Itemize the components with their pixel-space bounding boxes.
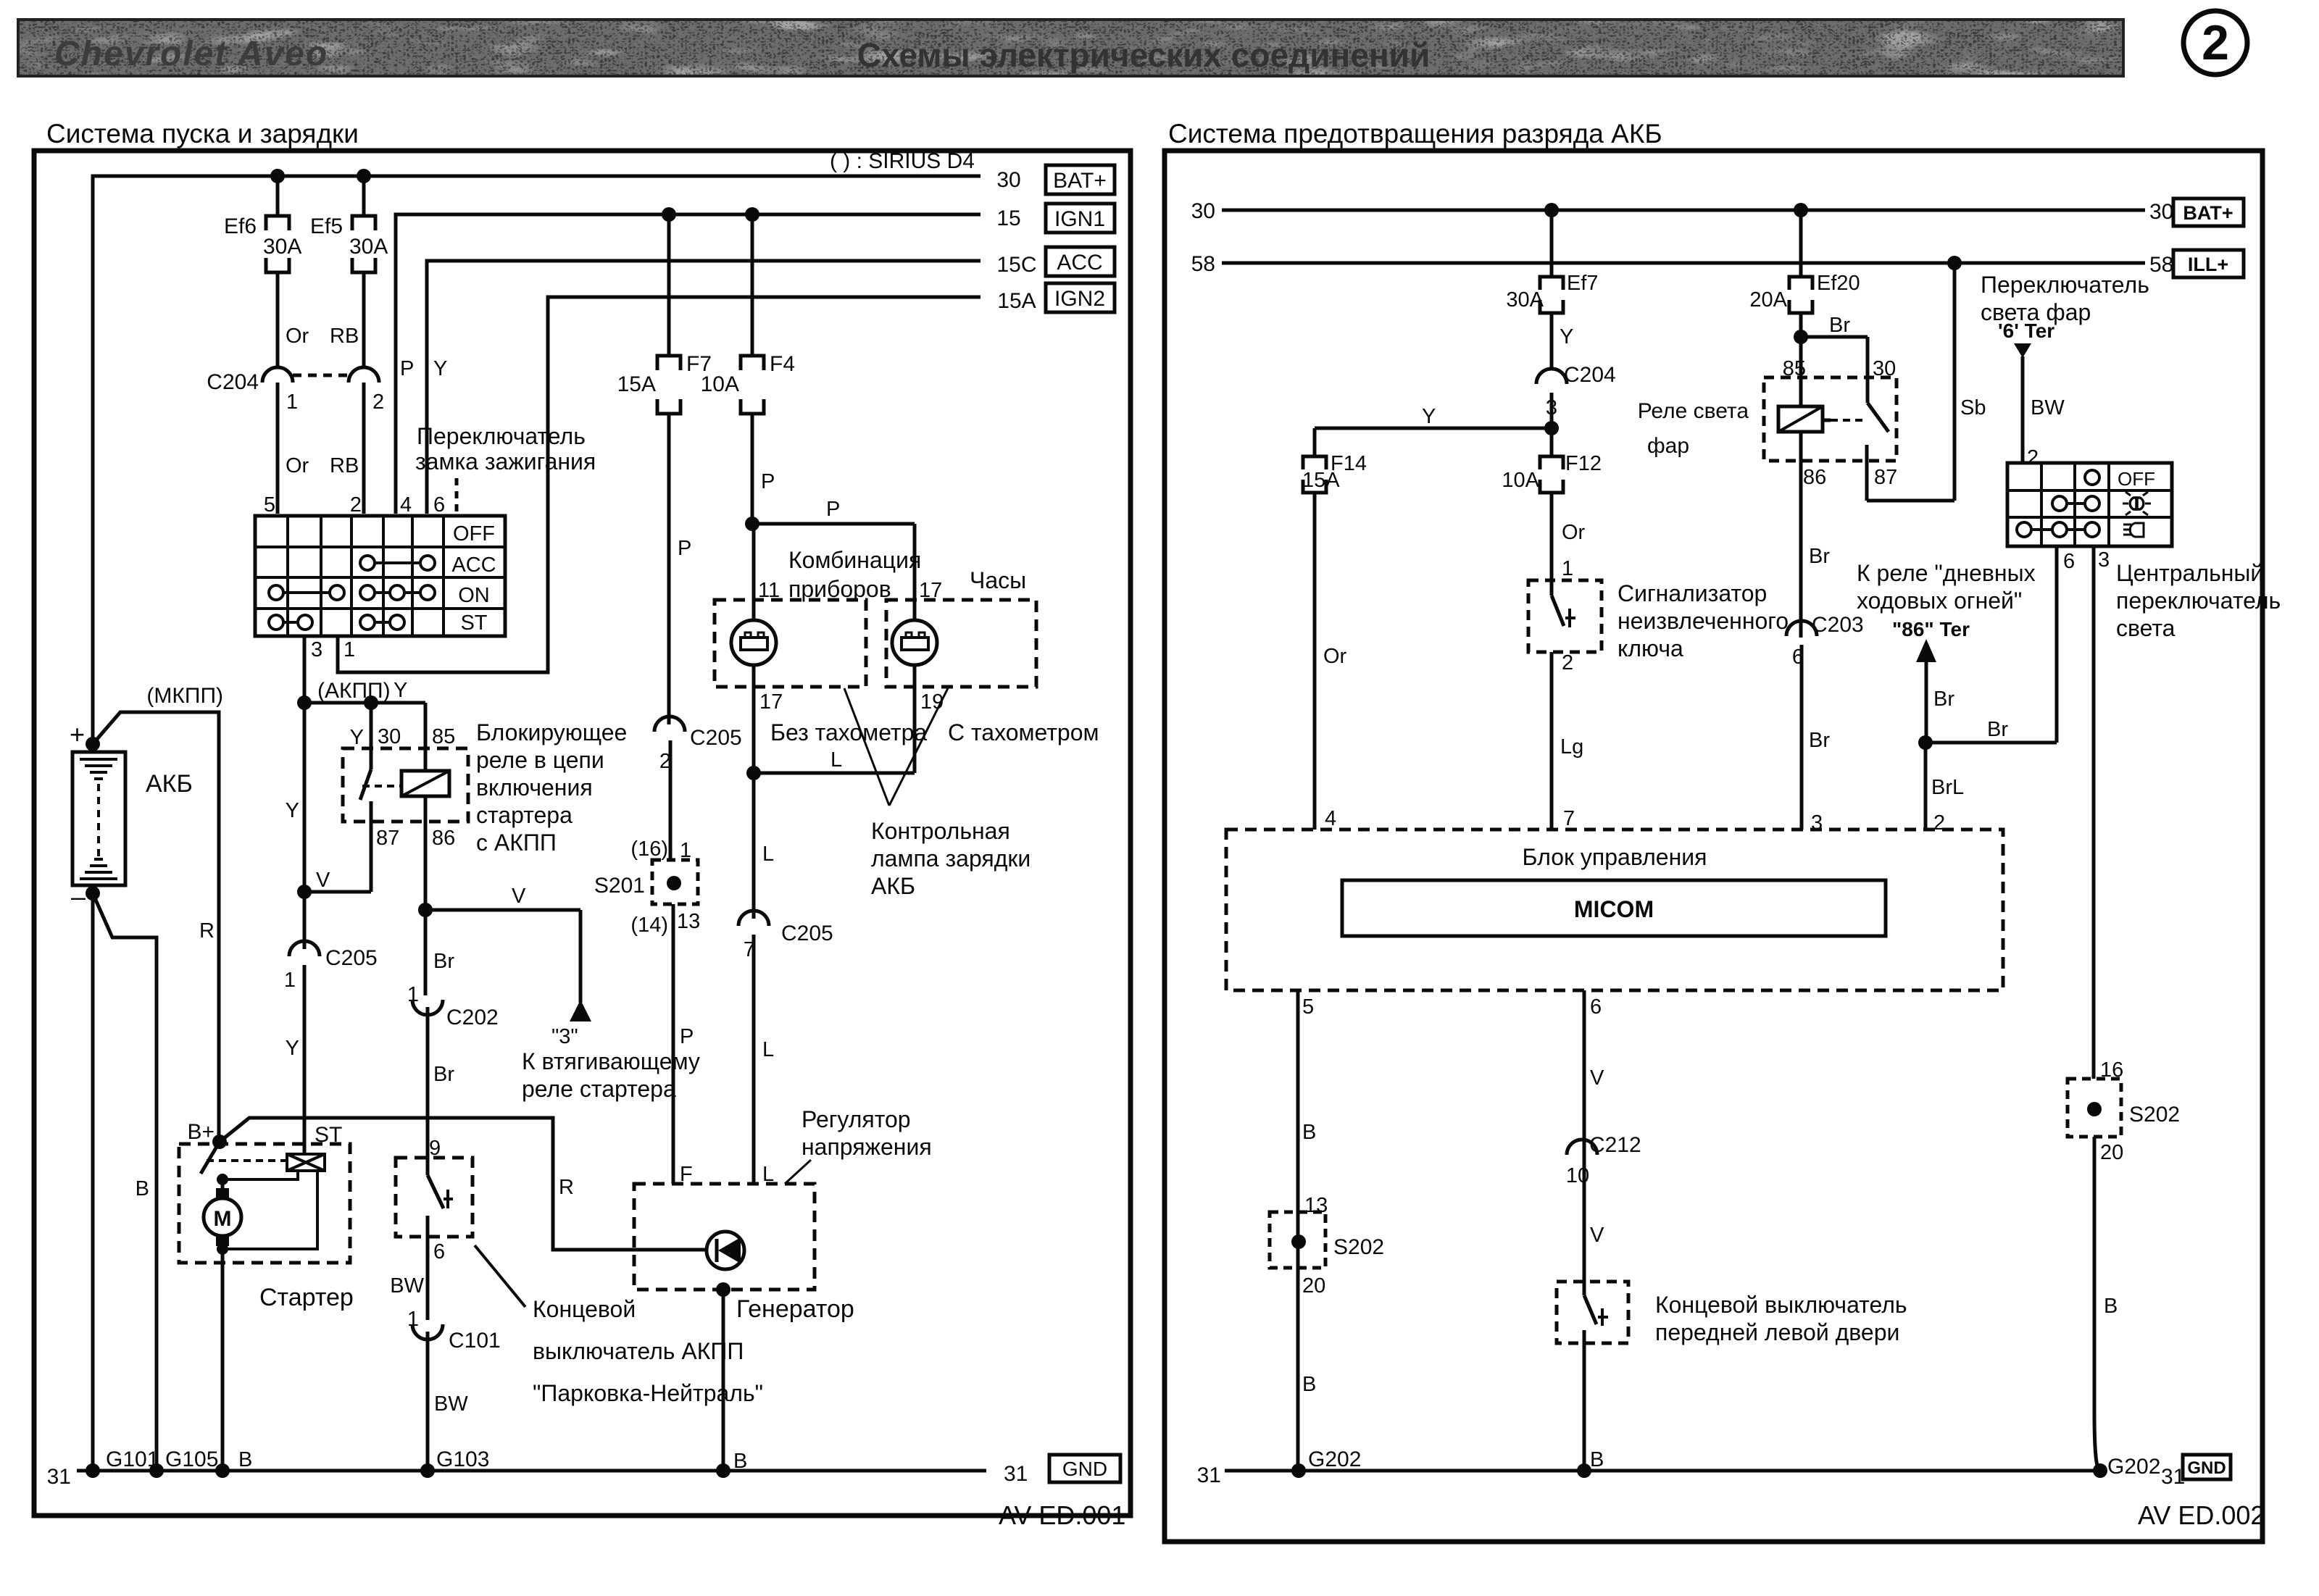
wire Y to F14 [1315,405,1552,458]
doc number AV ED.001 [999,1500,1125,1530]
ILL+ tag right [2173,250,2244,277]
cluster pin 17 below [759,690,783,714]
wire B starter motor to ground [221,1249,225,1471]
caption Переключатель света фар [1981,272,2149,342]
svg-text:Chevrolet Aveo: Chevrolet Aveo [54,35,328,73]
svg-text:S202: S202 [1333,1235,1384,1259]
svg-text:( ) : SIRIUS D4: ( ) : SIRIUS D4 [830,149,975,173]
wire RB C204-ignition [330,383,364,514]
BAT+ tag right [2173,199,2244,226]
right diagram title: Система предотвращения разряда АКБ [1168,119,1662,149]
svg-text:M: M [214,1207,232,1231]
svg-text:6: 6 [433,493,445,517]
svg-text:GND: GND [2187,1458,2226,1478]
junction relay pin30 branch [364,695,378,710]
label G202 left [1308,1447,1361,1471]
svg-text:BW: BW [390,1274,424,1298]
svg-text:F: F [680,1163,693,1186]
caption Сигнализатор [1618,580,1789,661]
svg-text:L: L [762,843,774,866]
junction Y branch [1544,421,1559,435]
svg-text:4: 4 [400,493,412,517]
svg-text:Концевой выключатель: Концевой выключатель [1655,1292,1907,1318]
svg-text:Y: Y [286,1037,299,1060]
generator output node [716,1282,730,1297]
svg-text:58: 58 [2149,253,2173,277]
svg-text:Схемы электрических соединений: Схемы электрических соединений [857,36,1431,74]
ignition switch pin numbers [264,493,445,517]
svg-text:15A: 15A [997,289,1036,313]
svg-text:30A: 30A [263,235,301,259]
svg-text:Br: Br [1809,729,1830,752]
wire Y C205 to starter ST [284,892,378,1154]
svg-text:C205: C205 [325,946,378,970]
left panel frame [34,151,1131,1516]
wire Br junction to switch pin6 [1925,718,2057,743]
relay caption Блокирующее реле [476,719,627,856]
svg-text:B: B [1302,1121,1316,1144]
connector C204 pin 3 [1536,363,1616,428]
svg-text:1: 1 [1562,557,1573,580]
junction Br relay feed [1794,314,1850,344]
ignition lock switch box [255,516,505,636]
headlamp relay Реле света фар [1764,337,1954,638]
svg-text:13: 13 [677,910,700,933]
svg-text:7: 7 [1563,807,1575,830]
svg-text:Or: Or [286,325,309,348]
junction bus15/F4 [745,207,759,222]
svg-text:Br: Br [1987,718,2008,741]
caption Центральный переключатель света [2116,560,2281,641]
svg-text:B: B [136,1177,149,1200]
ignition contacts ACC row [360,556,435,570]
caption Генератор [736,1295,854,1323]
svg-text:неизвлеченного: неизвлеченного [1618,608,1789,634]
note ( ) : SIRIUS D4 [830,149,975,173]
svg-text:ACC: ACC [1057,251,1102,275]
connector C101 pin 1 [407,1308,501,1353]
svg-text:Сигнализатор: Сигнализатор [1618,580,1767,606]
wire Br relay86 to C203 [1809,545,1830,568]
svg-text:15C: 15C [996,253,1036,277]
svg-text:30: 30 [2149,200,2173,224]
svg-text:2: 2 [372,390,384,414]
GND tag left [1049,1455,1120,1482]
svg-text:P: P [678,537,691,560]
fuse Ef6 30A [224,176,301,367]
svg-text:G202: G202 [1308,1447,1361,1471]
svg-text:6: 6 [2063,550,2075,573]
wire V to starter solenoid relay [418,885,700,1102]
junction bus30/Ef20 [1794,203,1808,217]
svg-text:выключатель АКПП: выключатель АКПП [533,1338,744,1364]
page header banner [18,20,2123,76]
svg-text:G105: G105 [165,1447,218,1471]
bus 15 IGN1 wire [396,214,981,514]
starter assembly [179,1120,350,1263]
svg-text:B: B [2104,1295,2118,1318]
svg-text:10A: 10A [701,372,739,396]
fuse F14 15A [1302,452,1367,830]
svg-text:86: 86 [1803,466,1826,489]
svg-text:2: 2 [2027,446,2039,469]
wire P branch to clock [752,498,915,622]
svg-text:BAT+: BAT+ [2183,202,2233,224]
svg-text:31: 31 [47,1465,71,1489]
svg-text:Y: Y [286,799,299,822]
svg-text:58: 58 [1191,252,1215,276]
wire Y ignition pin3 to relay junction [146,636,390,892]
caption Реле света фар [1638,399,1749,458]
wire BW switch to C101 [390,1237,428,1320]
svg-text:10: 10 [1566,1164,1589,1187]
connector C205 pin 2 [654,716,742,860]
ignition bottom pin labels [311,638,355,661]
regulator diode [707,1232,744,1269]
wire battery minus to G101 [91,893,95,1471]
ignition contacts ST row [269,615,404,630]
svg-text:напряжения: напряжения [802,1134,932,1160]
wire Y Ef7 to C204 [1560,325,1573,348]
svg-text:(14): (14) [630,914,668,937]
svg-text:BAT+: BAT+ [1053,169,1107,193]
svg-text:1: 1 [407,983,419,1006]
svg-text:Br: Br [1809,545,1830,568]
caption Стартер [259,1284,354,1311]
svg-text:87: 87 [1874,466,1897,489]
svg-text:BrL: BrL [1931,776,1964,799]
clock lamp [892,620,937,773]
svg-text:Br: Br [1829,314,1850,337]
svg-text:с АКПП: с АКПП [476,830,557,856]
svg-text:87: 87 [376,827,399,850]
junction АКПП node [297,695,312,710]
svg-text:C205: C205 [781,922,833,945]
connector C203 pin 6 [1786,613,1864,830]
svg-text:стартера: стартера [476,802,573,828]
svg-text:Комбинация: Комбинация [788,547,921,573]
cluster pin 11 [758,579,780,602]
svg-text:2: 2 [350,493,362,517]
banner text: Схемы электрических соединений [857,36,1431,74]
caption Концевой выключатель передней левой двери [1655,1292,1907,1345]
svg-text:Br: Br [1933,688,1954,711]
junction bus30/Ef6 [270,169,285,183]
wire P S201 to regulator F [673,904,694,1186]
svg-text:фар: фар [1647,434,1689,458]
svg-text:C212: C212 [1589,1133,1641,1157]
svg-text:L: L [830,748,842,772]
svg-text:C203: C203 [1812,613,1864,637]
IGN1 tag [1046,204,1115,233]
clock pin 19 below [920,690,944,714]
svg-text:RB: RB [330,325,359,348]
wire Or F14 to MICOM pin4 [1323,645,1347,830]
right panel frame [1165,151,2262,1542]
IGN2 tag [1046,283,1115,312]
svg-text:Переключатель: Переключатель [417,423,586,449]
wire Y label ignition pin6 [433,357,447,380]
wire starter B+ to generator [220,1118,707,1250]
svg-text:1: 1 [680,839,691,862]
svg-text:RB: RB [330,454,359,477]
svg-text:MICOM: MICOM [1574,896,1654,922]
svg-text:C101: C101 [449,1329,501,1353]
instrument cluster box [715,547,921,687]
banner text: Chevrolet Aveo [54,35,328,73]
svg-text:ACC: ACC [451,553,496,577]
svg-text:6: 6 [433,1240,445,1263]
svg-text:AV ED.002: AV ED.002 [2138,1500,2265,1530]
svg-text:Lg: Lg [1560,735,1583,759]
headlamp icon [2123,523,2144,537]
connector C202 pin 1 [407,983,499,1029]
svg-text:'6' Ter: '6' Ter [1998,319,2054,342]
svg-text:1: 1 [284,969,296,992]
svg-text:R: R [559,1176,574,1199]
svg-text:–: – [71,882,86,911]
svg-text:L: L [762,1038,774,1061]
svg-text:BW: BW [2031,396,2065,419]
svg-text:OFF: OFF [2118,468,2155,490]
wire B MICOM pin5 to G202 [1298,990,1316,1471]
splice S202 left [1270,1194,1384,1298]
svg-text:B: B [238,1448,252,1471]
callout park-neutral switch [475,1245,763,1406]
wire L lamp outputs join [746,748,915,780]
generator voltage regulator box [634,1106,932,1290]
wire P label ignition pin4 [400,357,414,380]
fuse F7 15A [617,214,712,724]
svg-text:Y: Y [433,357,447,380]
svg-text:30A: 30A [349,235,388,259]
svg-text:B: B [1302,1373,1316,1396]
svg-text:V: V [316,869,330,892]
svg-text:20A: 20A [1749,288,1787,312]
svg-text:20: 20 [2100,1141,2123,1164]
svg-text:9: 9 [429,1137,441,1160]
svg-text:Блок управления: Блок управления [1523,844,1707,870]
svg-text:Центральный: Центральный [2116,560,2263,586]
svg-text:AV ED.001: AV ED.001 [999,1500,1125,1530]
junction V node [297,869,330,899]
splice S202 right [2068,1058,2180,1471]
svg-text:3: 3 [311,638,322,661]
svg-text:31: 31 [1197,1463,1221,1487]
svg-text:15A: 15A [617,372,656,396]
svg-text:C202: C202 [446,1006,499,1029]
junction bus30/Ef5 [357,169,371,183]
charge warning lamp (cluster) [731,524,776,773]
svg-text:V: V [512,885,526,908]
wire B generator to ground [723,1290,747,1473]
svg-text:30: 30 [1191,199,1215,223]
svg-text:30: 30 [378,725,401,748]
parking lamp icon [2123,492,2151,515]
fuse F12 10A [1502,428,1602,580]
wire P F7 to C205 [678,537,691,560]
svg-text:B: B [1590,1448,1604,1471]
svg-text:ON: ON [458,584,490,607]
svg-text:реле стартера: реле стартера [522,1076,676,1102]
svg-text:АКБ: АКБ [146,770,193,798]
wire B battery to G105 [93,893,157,1471]
wire B door switch to ground [1590,1448,1604,1471]
svg-text:L: L [762,1163,774,1186]
headlight switch pins 6 3 [2057,546,2110,1079]
svg-text:Система пуска и зарядки: Система пуска и зарядки [46,119,359,149]
svg-text:BW: BW [434,1392,468,1416]
svg-text:30: 30 [996,168,1020,192]
svg-text:Стартер: Стартер [259,1284,354,1311]
svg-text:Блокирующее: Блокирующее [476,719,627,745]
wire Br C203 to MICOM pin3 [1809,729,1830,835]
wire BrL to MICOM pin2 [1925,743,1964,835]
svg-text:"3": "3" [551,1025,578,1048]
callout Переключатель замка зажигания [415,423,596,511]
page number badge 2 [2183,11,2247,75]
svg-text:C205: C205 [690,726,742,750]
bus 15A label [997,289,1036,313]
svg-text:Or: Or [1323,645,1347,668]
svg-text:B+: B+ [187,1120,215,1144]
svg-text:(16): (16) [630,837,668,861]
ACC tag [1046,247,1115,276]
junction bus30/Ef7 [1544,203,1559,217]
GND tag right [2183,1455,2231,1479]
wire R (МКПП) battery plus to starter B+ [93,712,219,1140]
fuse F4 10A [701,214,795,524]
fuse Ef20 20A [1749,210,1860,337]
svg-text:85: 85 [432,725,455,748]
svg-text:Без тахометра: Без тахометра [770,719,927,745]
wire Or Ef6-C204 [286,325,309,348]
left ground bus 31 [47,1447,1028,1489]
svg-text:ILL+: ILL+ [2188,254,2228,275]
headlight switch box [2007,463,2172,546]
wire RB Ef5-C204 [330,325,359,348]
svg-text:2: 2 [1562,651,1573,674]
svg-text:ST: ST [460,611,487,635]
svg-text:10A: 10A [1502,469,1539,492]
svg-text:IGN2: IGN2 [1054,287,1105,311]
svg-text:17: 17 [759,690,783,714]
svg-text:Y: Y [350,726,364,749]
junction bus58/Sb [1947,256,1962,270]
svg-text:20: 20 [1302,1274,1325,1298]
svg-text:1: 1 [344,638,355,661]
svg-text:S201: S201 [594,874,645,898]
svg-text:Ef5: Ef5 [310,214,343,238]
clock box [886,567,1036,687]
bus 15A IGN2 wire [338,297,981,672]
wire BW C101 to G103 [428,1332,468,1471]
svg-text:GND: GND [1062,1458,1107,1480]
svg-text:30: 30 [1873,357,1896,380]
svg-text:R: R [199,919,215,943]
left diagram title: Система пуска и зарядки [46,119,359,149]
bus 15C ACC wire [427,261,981,514]
junction BrL node [1918,735,1933,750]
svg-text:2: 2 [2202,15,2229,70]
wire V MICOM pin6 to door switch [1584,990,1604,1282]
svg-text:15: 15 [996,206,1020,230]
wire BW headlight switch pin2 [2014,343,2065,469]
svg-text:G101: G101 [106,1447,159,1471]
fuse Ef7 30A [1506,210,1598,368]
key reminder switch [1528,580,1602,830]
svg-text:Генератор: Генератор [736,1295,854,1323]
bus 30 BAT+ wire [93,176,981,744]
svg-text:Ef20: Ef20 [1817,272,1860,295]
caption Без тахометра [770,719,927,745]
callout charge lamp [844,688,1031,899]
wire L to C205 pin7 [738,773,833,1186]
svg-text:передней левой двери: передней левой двери [1655,1319,1899,1345]
svg-text:6: 6 [1590,995,1602,1019]
svg-text:Ef6: Ef6 [224,214,257,238]
svg-text:C204: C204 [1564,363,1616,387]
svg-text:31: 31 [1004,1462,1028,1486]
bus 30 label [996,168,1020,192]
svg-text:P: P [400,357,414,380]
svg-text:S202: S202 [2129,1103,2180,1127]
wire Or C204-ignition [278,383,309,514]
park-neutral switch (АКПП) [396,1137,472,1263]
svg-text:Переключатель: Переключатель [1981,272,2149,298]
svg-text:5: 5 [1302,995,1314,1019]
wire Br to DRL relay arrow [1916,639,1954,743]
junction bus15/F7 [662,207,676,222]
caption С тахометром [948,719,1099,745]
svg-text:ключа: ключа [1618,635,1683,661]
svg-text:Or: Or [1562,521,1586,544]
svg-text:P: P [761,470,775,493]
svg-text:30A: 30A [1506,288,1544,312]
svg-text:Концевой: Концевой [533,1296,636,1322]
svg-text:Контрольная: Контрольная [871,818,1010,844]
caption К реле дневных ходовых огней [1857,560,2036,640]
svg-text:V: V [1590,1224,1604,1247]
svg-text:Ef7: Ef7 [1567,272,1599,295]
svg-text:Sb: Sb [1960,396,1986,419]
doc number AV ED.002 [2138,1500,2265,1530]
svg-text:ходовых огней": ходовых огней" [1857,588,2022,614]
BAT+ tag [1046,165,1115,194]
svg-text:V: V [1590,1066,1604,1090]
svg-text:Система предотвращения разряда: Система предотвращения разряда АКБ [1168,119,1662,149]
svg-text:3: 3 [2098,548,2110,572]
svg-text:света: света [2116,615,2176,641]
wire Br C202 to switch [428,1007,454,1158]
bus 30 right wire [1191,199,2174,224]
svg-text:Регулятор: Регулятор [802,1106,911,1132]
svg-text:С тахометром: С тахометром [948,719,1099,745]
svg-text:IGN1: IGN1 [1054,207,1105,231]
svg-text:включения: включения [476,774,593,801]
svg-text:OFF: OFF [453,522,495,546]
svg-text:Y: Y [1422,405,1436,428]
wire Or F12 to key switch [1562,521,1586,580]
svg-text:Y: Y [394,679,407,702]
svg-text:Часы: Часы [970,567,1026,593]
clock pin 17 [919,579,942,602]
svg-text:G202: G202 [2107,1455,2160,1479]
svg-text:F4: F4 [770,352,795,376]
headlight switch contacts [2017,470,2099,537]
svg-text:G103: G103 [436,1447,489,1471]
wire P F4 to cluster [745,470,775,531]
